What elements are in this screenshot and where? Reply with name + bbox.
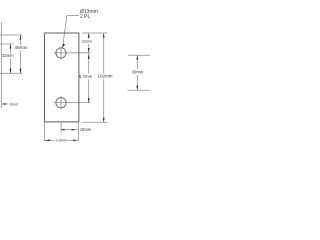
svg-text:5.7mm: 5.7mm xyxy=(79,74,93,79)
svg-text:102mm: 102mm xyxy=(97,74,112,79)
svg-text:39mm: 39mm xyxy=(132,70,144,75)
svg-text:33mm: 33mm xyxy=(2,53,14,58)
svg-text:2 PL: 2 PL xyxy=(80,14,91,20)
svg-text:23mm: 23mm xyxy=(82,38,93,43)
svg-text:3.8mm: 3.8mm xyxy=(55,139,67,143)
svg-text:6mm: 6mm xyxy=(10,102,18,106)
svg-text:19mm: 19mm xyxy=(80,127,92,132)
svg-text:46mm: 46mm xyxy=(14,45,27,51)
